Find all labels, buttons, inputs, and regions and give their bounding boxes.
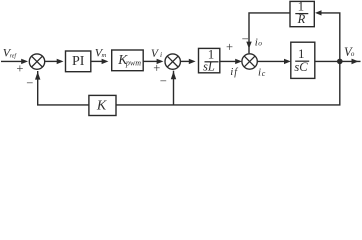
svg-text:−: − — [26, 76, 33, 90]
svg-text:o: o — [351, 50, 355, 58]
svg-text:sC: sC — [294, 60, 308, 74]
svg-text:c: c — [262, 69, 266, 78]
svg-text:i: i — [230, 66, 233, 78]
svg-text:pwm: pwm — [125, 58, 141, 67]
svg-text:m: m — [102, 52, 107, 59]
svg-text:−: − — [242, 32, 249, 46]
svg-text:PI: PI — [72, 54, 85, 69]
svg-text:−: − — [160, 74, 167, 88]
svg-text:+: + — [16, 61, 23, 75]
svg-text:i: i — [160, 50, 162, 59]
svg-text:K: K — [96, 99, 107, 114]
svg-text:1: 1 — [298, 46, 305, 61]
svg-text:+: + — [226, 40, 233, 54]
svg-text:o: o — [258, 39, 262, 48]
svg-text:i: i — [258, 67, 261, 79]
